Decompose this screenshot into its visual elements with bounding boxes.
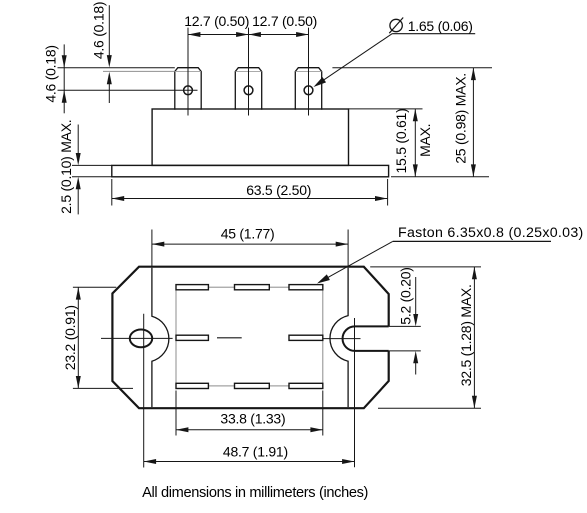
svg-text:48.7 (1.91): 48.7 (1.91) [223,444,288,460]
svg-text:2.5 (0.10) MAX.: 2.5 (0.10) MAX. [58,120,74,214]
svg-text:12.7 (0.50): 12.7 (0.50) [184,13,249,29]
svg-text:25 (0.98) MAX.: 25 (0.98) MAX. [452,73,468,164]
svg-text:12.7 (0.50): 12.7 (0.50) [252,13,317,29]
svg-text:All dimensions in millimeters: All dimensions in millimeters (inches) [142,485,368,501]
svg-text:32.5 (1.28) MAX.: 32.5 (1.28) MAX. [458,284,474,386]
svg-text:1.65 (0.06): 1.65 (0.06) [408,18,473,34]
svg-text:23.2 (0.91): 23.2 (0.91) [62,305,78,370]
svg-text:15.5 (0.61): 15.5 (0.61) [393,109,409,174]
svg-text:33.8 (1.33): 33.8 (1.33) [220,410,285,426]
svg-text:Faston 6.35x0.8 (0.25x0.03): Faston 6.35x0.8 (0.25x0.03) [398,225,584,241]
svg-text:4.6 (0.18): 4.6 (0.18) [91,2,107,59]
svg-text:MAX.: MAX. [417,124,433,157]
svg-text:63.5 (2.50): 63.5 (2.50) [246,182,311,198]
svg-text:45 (1.77): 45 (1.77) [221,225,275,241]
svg-text:4.6 (0.18): 4.6 (0.18) [42,45,58,102]
svg-text:5.2 (0.20): 5.2 (0.20) [398,267,414,324]
